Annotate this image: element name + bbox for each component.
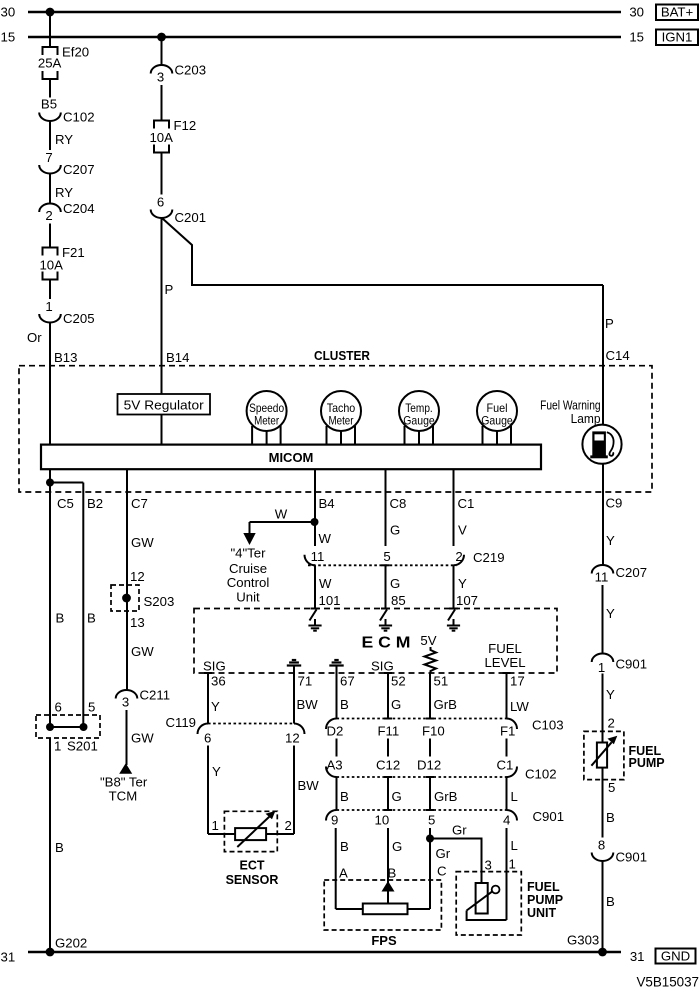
svg-text:C5: C5 <box>57 496 74 511</box>
svg-text:2: 2 <box>608 716 615 731</box>
connector C901 row <box>326 810 337 821</box>
svg-text:GW: GW <box>131 731 154 746</box>
svg-text:"4"Ter: "4"Ter <box>230 546 266 561</box>
connector C201 pin 6 <box>151 210 173 219</box>
wire F1-C1 <box>506 739 508 757</box>
svg-text:C119: C119 <box>165 715 196 730</box>
connector C211 pin 3 <box>116 690 138 699</box>
svg-text:15: 15 <box>629 30 644 45</box>
svg-text:10: 10 <box>375 813 390 828</box>
svg-text:UNIT: UNIT <box>527 906 557 920</box>
wire GW C211 to TCM <box>126 710 128 765</box>
wire D2-A3 <box>336 739 338 757</box>
splice S201 dots and link <box>46 723 54 731</box>
svg-text:B14: B14 <box>166 350 189 365</box>
svg-text:LEVEL: LEVEL <box>484 655 525 670</box>
svg-text:Or: Or <box>27 330 42 345</box>
svg-text:2: 2 <box>45 208 52 223</box>
svg-text:IGN1: IGN1 <box>662 30 693 45</box>
svg-text:B: B <box>340 697 349 712</box>
wire bus30 to fuse Ef20 <box>49 12 51 47</box>
svg-text:L: L <box>511 789 518 804</box>
svg-text:BW: BW <box>297 697 319 712</box>
connector C207 pin 11 right <box>592 565 614 573</box>
junction bus30 / Ef20 <box>46 8 55 17</box>
svg-text:C103: C103 <box>532 718 564 733</box>
fuse Ef20 25A <box>43 47 58 79</box>
FPS dashed box <box>324 880 441 930</box>
wire Y C207 to C901 <box>602 585 604 654</box>
svg-text:2: 2 <box>285 818 292 833</box>
wire B fuel pump to C901-8 <box>602 768 604 838</box>
svg-text:51: 51 <box>434 674 449 689</box>
wire Y C119-6 to ECT 1 <box>207 746 209 835</box>
svg-text:G: G <box>392 839 402 854</box>
svg-text:Cruise: Cruise <box>229 561 267 576</box>
tacho meter gauge <box>321 391 361 445</box>
wire bus15 to C203 <box>161 37 163 65</box>
svg-text:1: 1 <box>598 660 605 675</box>
svg-text:G: G <box>390 523 400 538</box>
BAT+ terminal box <box>656 5 698 21</box>
svg-text:8: 8 <box>598 838 605 853</box>
wire F10-D12 <box>429 739 431 757</box>
node 15 bus (IGN1 rail) <box>28 36 621 39</box>
temp gauge <box>399 391 439 445</box>
pin 52 stub <box>384 672 392 674</box>
svg-text:15: 15 <box>1 30 16 45</box>
svg-text:C901: C901 <box>616 850 648 865</box>
junction bus15 / C203 drop <box>157 33 166 42</box>
svg-text:5: 5 <box>428 813 435 828</box>
ECT resistor element <box>208 833 235 835</box>
wire G C12-10 <box>387 777 389 810</box>
svg-text:Fuel Warning: Fuel Warning <box>540 399 601 413</box>
svg-text:Y: Y <box>211 699 220 714</box>
arrow 4 Ter cruise control unit <box>243 533 255 545</box>
svg-text:B13: B13 <box>54 350 77 365</box>
svg-text:Gr: Gr <box>452 823 467 838</box>
svg-text:CLUSTER: CLUSTER <box>314 348 370 363</box>
wire MICOM C1 column <box>453 469 455 546</box>
svg-text:F11: F11 <box>378 724 400 739</box>
svg-text:C9: C9 <box>606 496 623 511</box>
svg-text:B5: B5 <box>41 97 57 112</box>
svg-text:17: 17 <box>510 674 525 689</box>
wire B S201 to G202 <box>49 738 51 952</box>
svg-text:Y: Y <box>458 576 467 591</box>
svg-text:E C M: E C M <box>362 635 411 652</box>
svg-text:A: A <box>339 866 348 881</box>
svg-text:C102: C102 <box>63 110 95 125</box>
wire F11-C12 <box>387 739 389 757</box>
wire RY C207 to C204 <box>49 174 51 205</box>
svg-text:B: B <box>340 839 349 854</box>
svg-text:1: 1 <box>54 739 61 754</box>
terminal arrow B8 TCM <box>119 763 132 774</box>
svg-text:1: 1 <box>509 857 516 872</box>
junction G202 <box>46 948 55 957</box>
node 31 bus (GND rail) <box>28 951 621 954</box>
svg-text:5V: 5V <box>420 633 436 648</box>
connector C207 pin 7 <box>39 165 61 174</box>
wire L C1-4 <box>506 777 508 810</box>
GND terminal box <box>656 949 696 964</box>
wire MICOM C5 column <box>49 469 51 727</box>
svg-text:W: W <box>319 531 332 546</box>
svg-text:1: 1 <box>45 299 52 314</box>
fuse F21 10A <box>43 248 58 280</box>
svg-text:36: 36 <box>211 674 226 689</box>
connector C203 pin 3 <box>151 65 173 74</box>
svg-text:W: W <box>275 507 288 522</box>
svg-text:F12: F12 <box>174 118 197 133</box>
svg-text:GrB: GrB <box>434 697 458 712</box>
svg-text:Gr: Gr <box>436 846 451 861</box>
svg-text:C1: C1 <box>458 496 475 511</box>
svg-text:GW: GW <box>131 644 154 659</box>
svg-text:G202: G202 <box>55 936 87 951</box>
svg-text:6: 6 <box>204 731 211 746</box>
svg-text:P: P <box>165 282 174 297</box>
svg-text:FUEL: FUEL <box>527 880 560 894</box>
svg-text:PUMP: PUMP <box>629 756 665 770</box>
svg-text:107: 107 <box>456 593 478 608</box>
wire A to resistor <box>336 908 363 910</box>
svg-text:Meter: Meter <box>329 413 354 427</box>
svg-text:A3: A3 <box>327 758 343 773</box>
wire C203 to fuse F12 <box>161 85 163 121</box>
svg-text:TCM: TCM <box>109 789 138 804</box>
switch tick 107 <box>449 608 458 610</box>
svg-text:B: B <box>87 611 96 626</box>
svg-text:SIG: SIG <box>371 659 394 674</box>
FPS resistor element <box>363 904 408 915</box>
wire C219-2 to ECM 107 <box>453 565 455 608</box>
wire F21 to C205 <box>49 280 51 300</box>
svg-text:31: 31 <box>630 949 645 964</box>
svg-text:D12: D12 <box>417 758 441 773</box>
svg-text:SIG: SIG <box>203 659 226 674</box>
svg-text:B2: B2 <box>87 496 103 511</box>
svg-text:3: 3 <box>485 858 492 873</box>
wire MICOM C8 column <box>385 469 387 546</box>
wire Y C901 to fuel pump <box>602 674 604 743</box>
svg-text:C8: C8 <box>390 496 407 511</box>
wire branch C201 to right header <box>163 219 604 286</box>
wire MICOM B4 column <box>314 469 316 546</box>
wire C to resistor <box>408 908 431 910</box>
svg-text:LW: LW <box>510 699 529 714</box>
svg-text:B4: B4 <box>319 496 335 511</box>
wire L 4-1 FPU <box>506 828 508 920</box>
switch tick 85 <box>381 608 390 610</box>
svg-text:B: B <box>55 840 64 855</box>
svg-text:RY: RY <box>55 132 73 147</box>
wire F12 to C201 <box>161 153 163 195</box>
svg-text:C1: C1 <box>497 758 514 773</box>
wire branch to B2 <box>50 482 83 484</box>
CLUSTER dashed box <box>19 366 652 492</box>
fuel warning lamp <box>582 366 621 492</box>
5V Regulator box <box>118 394 211 415</box>
svg-text:RY: RY <box>55 185 73 200</box>
svg-text:11: 11 <box>311 549 325 564</box>
svg-text:C204: C204 <box>63 201 95 216</box>
fuel sender symbol <box>476 883 488 914</box>
svg-text:B: B <box>56 611 65 626</box>
junction C5/B2 branch <box>46 479 54 487</box>
svg-text:F10: F10 <box>422 724 445 739</box>
svg-text:S201: S201 <box>67 739 98 754</box>
connector C901 pin 1 right <box>592 654 614 662</box>
svg-text:B: B <box>388 866 397 881</box>
svg-text:C12: C12 <box>376 758 400 773</box>
FPS diode arrow <box>382 881 395 892</box>
svg-text:S203: S203 <box>144 594 175 609</box>
svg-text:B: B <box>340 789 349 804</box>
svg-text:PUMP: PUMP <box>527 893 563 907</box>
connector C205 pin 1 <box>39 314 61 323</box>
svg-text:Y: Y <box>606 687 615 702</box>
svg-text:85: 85 <box>391 593 406 608</box>
svg-text:C901: C901 <box>616 657 648 672</box>
connector C204 pin 2 <box>39 204 61 213</box>
FUEL PUMP dashed box <box>584 731 624 779</box>
svg-text:12: 12 <box>130 569 145 584</box>
svg-text:F1: F1 <box>500 724 515 739</box>
svg-text:MICOM: MICOM <box>269 450 314 465</box>
svg-text:Gauge: Gauge <box>481 413 513 427</box>
junction Gr branch <box>426 835 434 843</box>
wire C219-5 to ECM 85 <box>385 565 387 608</box>
svg-text:11: 11 <box>595 570 609 585</box>
svg-text:V5B15037: V5B15037 <box>636 975 699 990</box>
svg-text:D2: D2 <box>327 724 344 739</box>
svg-text:G: G <box>390 576 400 591</box>
svg-text:BAT+: BAT+ <box>661 5 694 20</box>
svg-text:1: 1 <box>212 818 219 833</box>
svg-text:L: L <box>511 838 518 853</box>
svg-text:FPS: FPS <box>371 933 397 948</box>
svg-text:67: 67 <box>340 674 355 689</box>
svg-text:10A: 10A <box>149 130 173 145</box>
pin 51 stub <box>429 674 431 719</box>
splice S203 dashed box <box>111 585 139 611</box>
svg-text:Control: Control <box>227 575 270 590</box>
fuel pump motor symbol <box>597 743 607 768</box>
ECT variable arrow <box>237 817 269 848</box>
wire header down to cluster C14 <box>602 285 604 366</box>
wire B A3-9 <box>336 777 338 810</box>
svg-text:12: 12 <box>285 731 300 746</box>
svg-text:P: P <box>605 316 614 331</box>
svg-text:C: C <box>437 864 447 879</box>
svg-text:G303: G303 <box>567 933 599 948</box>
MICOM box <box>41 445 541 470</box>
wire BW C119-12 to ECT 2 <box>293 746 295 835</box>
wire Gr branch to fuel pump unit pin 3 <box>430 839 482 884</box>
wire GrB D12-5 <box>429 777 431 810</box>
svg-text:5V Regulator: 5V Regulator <box>124 398 205 413</box>
svg-text:7: 7 <box>45 150 52 165</box>
node 30 bus (BAT+ rail) <box>28 11 621 14</box>
svg-text:C102: C102 <box>525 767 557 782</box>
svg-text:Y: Y <box>606 533 615 548</box>
svg-text:G: G <box>391 697 401 712</box>
svg-text:5: 5 <box>383 549 390 564</box>
ECT dashed box <box>224 811 277 851</box>
wire Or C205 to cluster B13 <box>49 323 51 445</box>
svg-text:GrB: GrB <box>434 789 458 804</box>
fuel gauge <box>477 391 517 445</box>
svg-text:"B8" Ter: "B8" Ter <box>100 775 148 790</box>
svg-text:C14: C14 <box>606 348 630 363</box>
svg-text:9: 9 <box>331 813 338 828</box>
wire Gr 5-C FPS <box>429 828 431 909</box>
svg-text:5: 5 <box>88 700 95 715</box>
svg-text:C203: C203 <box>175 63 207 78</box>
switch tick 101 <box>311 608 320 610</box>
junction B4 / cruise branch <box>311 518 319 526</box>
connector C219 row <box>305 555 316 566</box>
svg-text:6: 6 <box>157 195 164 210</box>
svg-text:BW: BW <box>298 778 320 793</box>
pin 71 stub <box>293 673 295 724</box>
wire B2 column <box>82 483 84 728</box>
svg-text:71: 71 <box>298 674 313 689</box>
wire sender bottom to pin1 wire <box>467 911 507 921</box>
svg-text:Lamp: Lamp <box>571 412 601 426</box>
svg-text:3: 3 <box>157 70 164 85</box>
wire B 9-A FPS <box>335 828 337 909</box>
svg-text:C207: C207 <box>63 162 95 177</box>
svg-text:4: 4 <box>503 813 510 828</box>
pin 36 stub <box>204 672 212 674</box>
svg-text:W: W <box>319 576 332 591</box>
svg-text:C207: C207 <box>616 565 648 580</box>
svg-text:Y: Y <box>212 764 221 779</box>
ground ECM internal 67 <box>334 659 338 661</box>
fuse F12 10A <box>154 121 169 153</box>
connector C901 pin 8 right <box>592 853 614 861</box>
svg-text:C211: C211 <box>140 688 171 703</box>
pin 67 stub <box>336 673 338 719</box>
wire G 10-B FPS <box>387 828 389 883</box>
splice S201 dashed box <box>36 715 100 738</box>
wire C9 column upper <box>602 492 604 565</box>
svg-text:C201: C201 <box>175 210 207 225</box>
wire B4 C219-11 to ECM 101 <box>314 565 316 608</box>
svg-text:5: 5 <box>608 780 615 795</box>
svg-text:3: 3 <box>122 695 129 710</box>
IGN1 terminal box <box>656 30 698 46</box>
splice S203 dot <box>122 594 131 603</box>
wire MICOM C7 column <box>126 469 128 690</box>
pin 17 stub <box>503 672 511 674</box>
svg-text:30: 30 <box>629 5 644 20</box>
junction G303 <box>598 948 607 957</box>
svg-text:C205: C205 <box>63 311 95 326</box>
svg-text:C7: C7 <box>131 496 148 511</box>
FUEL PUMP UNIT dashed box <box>456 872 521 935</box>
svg-text:F21: F21 <box>62 245 85 260</box>
svg-text:2: 2 <box>455 549 462 564</box>
wire down to cruise arrow <box>249 522 251 533</box>
svg-text:10A: 10A <box>39 258 63 273</box>
wire branch to cruise control <box>250 521 315 523</box>
wire P C201 to cluster B14 <box>161 218 163 445</box>
svg-text:Ef20: Ef20 <box>62 45 89 60</box>
svg-text:Y: Y <box>606 606 615 621</box>
svg-text:C219: C219 <box>473 550 505 565</box>
svg-text:B: B <box>606 894 615 909</box>
ground ECM internal 71 <box>292 659 296 661</box>
svg-text:G: G <box>392 789 402 804</box>
svg-text:52: 52 <box>391 674 406 689</box>
svg-text:30: 30 <box>1 5 16 20</box>
svg-text:Gauge: Gauge <box>403 413 435 427</box>
ECM dashed box <box>194 609 557 674</box>
svg-text:C901: C901 <box>533 809 565 824</box>
svg-text:Unit: Unit <box>236 590 260 605</box>
svg-text:SENSOR: SENSOR <box>226 873 279 887</box>
svg-text:GW: GW <box>131 535 154 550</box>
svg-text:V: V <box>458 523 467 538</box>
svg-text:B: B <box>606 810 615 825</box>
wire RY C102 to C207 <box>49 121 51 150</box>
svg-text:ECT: ECT <box>240 858 265 872</box>
svg-text:25A: 25A <box>38 56 62 71</box>
wire Ef20 to C102 <box>49 79 51 98</box>
wire C204 to fuse F21 <box>49 224 51 248</box>
svg-text:Meter: Meter <box>254 413 279 427</box>
connector C103 row <box>326 719 337 730</box>
wire B C901 to G303 <box>602 861 604 952</box>
svg-text:FUEL: FUEL <box>488 641 522 656</box>
speedo meter gauge <box>247 391 287 445</box>
svg-text:13: 13 <box>130 615 145 630</box>
svg-text:31: 31 <box>1 950 16 965</box>
svg-text:GND: GND <box>661 949 690 964</box>
svg-text:101: 101 <box>319 593 341 608</box>
svg-text:6: 6 <box>55 700 62 715</box>
